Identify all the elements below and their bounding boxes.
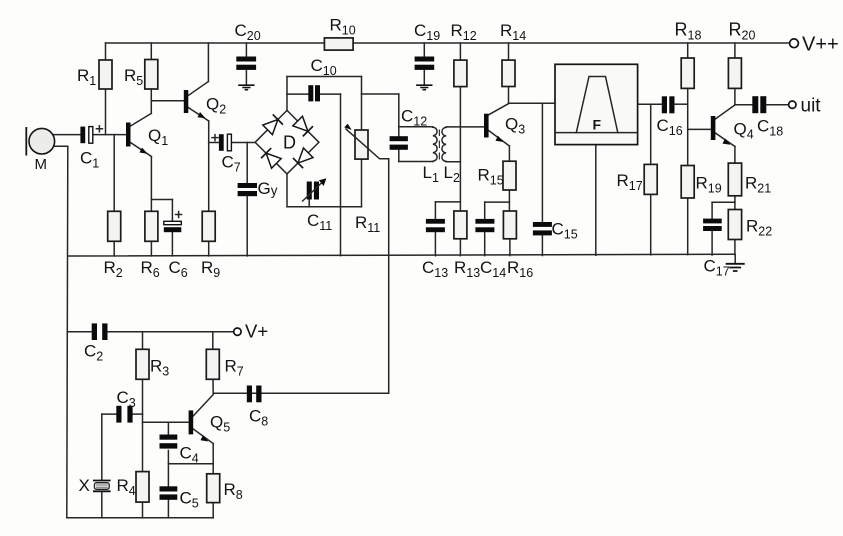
svg-text:uit: uit — [801, 96, 822, 117]
svg-text:V+: V+ — [245, 321, 268, 342]
svg-text:M: M — [35, 156, 48, 173]
svg-text:D: D — [283, 133, 296, 153]
svg-text:F: F — [593, 117, 602, 133]
svg-text:X: X — [79, 476, 90, 495]
svg-text:V++: V++ — [802, 34, 839, 56]
